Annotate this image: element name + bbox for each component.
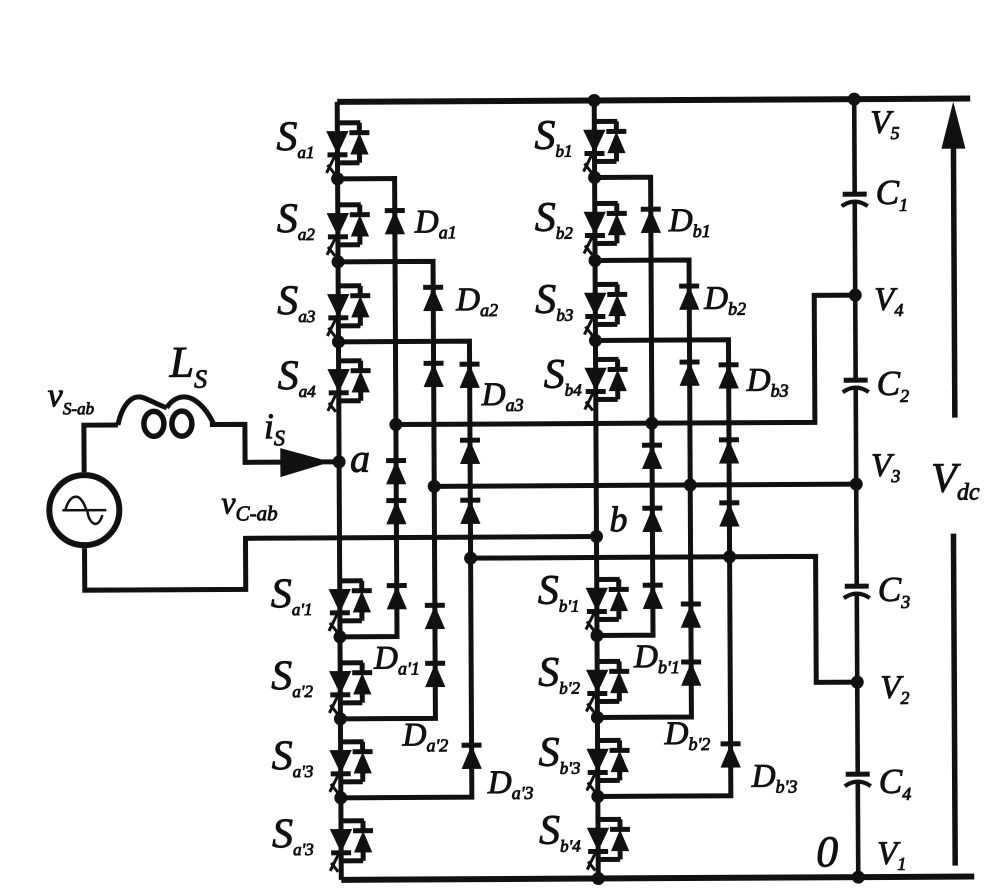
- switch Sa'2 (GTO with antiparallel diode): [329, 663, 372, 714]
- node b: [590, 530, 603, 543]
- junction phase-b leg / N3: [589, 334, 602, 347]
- wire DC bus: [854, 99, 858, 877]
- junction phase-b leg / N1': [590, 629, 603, 642]
- wire clamp branch Da1/Da'1 (phase a): [338, 179, 397, 637]
- clamp diode (Da2 branch): [425, 605, 445, 628]
- switch Sa'4 (GTO with antiparallel diode): [330, 821, 373, 872]
- switch Sb'1 (GTO with antiparallel diode): [586, 579, 629, 630]
- junction Da2 branch / V3 line: [428, 480, 441, 493]
- diode Da'1: [387, 585, 407, 608]
- svg-text:a: a: [350, 436, 370, 481]
- svg-text:b: b: [609, 499, 627, 539]
- junction Da3 branch / V2 line: [464, 552, 477, 565]
- wire top DC rail: [337, 99, 970, 102]
- clamp diode (Db2 branch): [681, 604, 701, 627]
- diode Db'3: [721, 744, 741, 767]
- wire clamp branch Db3/Db'3 (phase b): [595, 340, 730, 797]
- wire phase-a leg: [337, 102, 341, 880]
- wire V2 clamp line to bus: [471, 556, 858, 684]
- wire clamp branch Da2/Da'2 (phase a): [338, 261, 435, 718]
- diode Da3: [460, 364, 480, 387]
- wire clamp branch Db2/Db'2 (phase b): [595, 260, 691, 717]
- wire clamp branch Da3/Da'3 (phase a): [338, 341, 471, 798]
- svg-text:0: 0: [816, 827, 838, 876]
- capacitor C1: [842, 194, 868, 206]
- node V4: [849, 289, 862, 302]
- node V5 (bus top): [848, 93, 861, 106]
- ac source vS (sinusoidal voltage source): [49, 475, 119, 545]
- junction phase-b leg / N2: [589, 254, 602, 267]
- current arrow iS: [281, 449, 328, 476]
- junction phase-a leg / N2': [334, 712, 347, 725]
- node V1 / 0 (bus bottom): [852, 871, 865, 884]
- switch Sb4 (GTO with antiparallel diode): [585, 359, 628, 410]
- wire node b to source (return path): [84, 537, 596, 591]
- diode Db'2: [681, 662, 701, 685]
- junction phase-a leg / N3: [332, 335, 345, 348]
- switch Sa4 (GTO with antiparallel diode): [328, 361, 371, 412]
- node V2: [851, 676, 864, 689]
- switch Sb'4 (GTO with antiparallel diode): [587, 819, 630, 870]
- junction phase-b leg / N2': [591, 711, 604, 724]
- switch Sa'3 (GTO with antiparallel diode): [330, 742, 373, 793]
- clamp diode (Db3 branch): [719, 503, 739, 526]
- wire phase-b leg: [594, 101, 598, 879]
- clamp diode (Db1 branch): [642, 445, 662, 468]
- wire arrow tip to node a: [322, 459, 339, 464]
- diode Da'2: [425, 663, 445, 686]
- junction phase-a leg / N1: [331, 172, 344, 185]
- diode Da1: [385, 211, 405, 234]
- capacitor C4: [845, 774, 871, 786]
- Vdc line lower: [953, 534, 955, 866]
- clamp diode (Db3 branch): [719, 440, 739, 463]
- switch Sa1 (GTO with antiparallel diode): [326, 123, 369, 174]
- clamp diode (Da1 branch): [386, 460, 406, 483]
- diode Db1: [641, 209, 661, 232]
- switch Sa'1 (GTO with antiparallel diode): [329, 581, 372, 632]
- wire clamp branch Db1/Db'1 (phase b): [595, 177, 653, 635]
- junction phase-b leg / N1: [588, 171, 601, 184]
- clamp diode (Da2 branch): [424, 363, 444, 386]
- junction phase-a leg / N3': [334, 791, 347, 804]
- switch Sa3 (GTO with antiparallel diode): [327, 286, 370, 337]
- junction Db3 branch / V2 line: [723, 550, 736, 563]
- switch Sb2 (GTO with antiparallel diode): [584, 203, 627, 254]
- junction phase-b leg / bottom rail: [592, 872, 605, 885]
- clamp diode (Da3 branch): [460, 440, 480, 463]
- clamp diode (Db2 branch): [680, 362, 700, 385]
- clamp diode (Db1 branch): [642, 508, 662, 531]
- switch Sb'2 (GTO with antiparallel diode): [586, 661, 629, 712]
- Vdc arrow upper: [941, 102, 967, 418]
- diode Db2: [679, 286, 699, 309]
- junction Da1 branch / V4 line: [389, 418, 402, 431]
- node a: [333, 455, 346, 468]
- switch Sb1 (GTO with antiparallel diode): [583, 121, 626, 172]
- junction Db1 branch / V4 line: [645, 417, 658, 430]
- capacitor C2: [843, 380, 869, 392]
- switch Sb'3 (GTO with antiparallel diode): [587, 740, 630, 791]
- switch Sa2 (GTO with antiparallel diode): [327, 205, 370, 256]
- inductor LS: [118, 397, 214, 437]
- junction phase-a leg / N1': [333, 630, 346, 643]
- diode Db3: [719, 365, 739, 388]
- diode Da2: [423, 287, 443, 310]
- wire V4 clamp line to bus: [395, 295, 856, 424]
- switch Sb3 (GTO with antiparallel diode): [584, 284, 627, 335]
- wire source top to inductor: [84, 425, 118, 472]
- wire V3 clamp line to bus: [434, 484, 856, 486]
- junction phase-b leg / N3': [591, 790, 604, 803]
- junction phase-a leg / N2: [332, 255, 345, 268]
- junction Db2 branch / V3 line: [684, 478, 697, 491]
- clamp diode (Da3 branch): [460, 500, 480, 523]
- wire bottom DC rail: [341, 877, 974, 880]
- capacitor C3: [844, 586, 870, 598]
- node V3: [850, 478, 863, 491]
- wire inductor to node a with step: [210, 424, 292, 462]
- junction phase-b leg / top rail: [588, 94, 601, 107]
- diode Db'1: [643, 585, 663, 608]
- clamp diode (Da1 branch): [386, 500, 406, 523]
- diode Da'3: [462, 745, 482, 768]
